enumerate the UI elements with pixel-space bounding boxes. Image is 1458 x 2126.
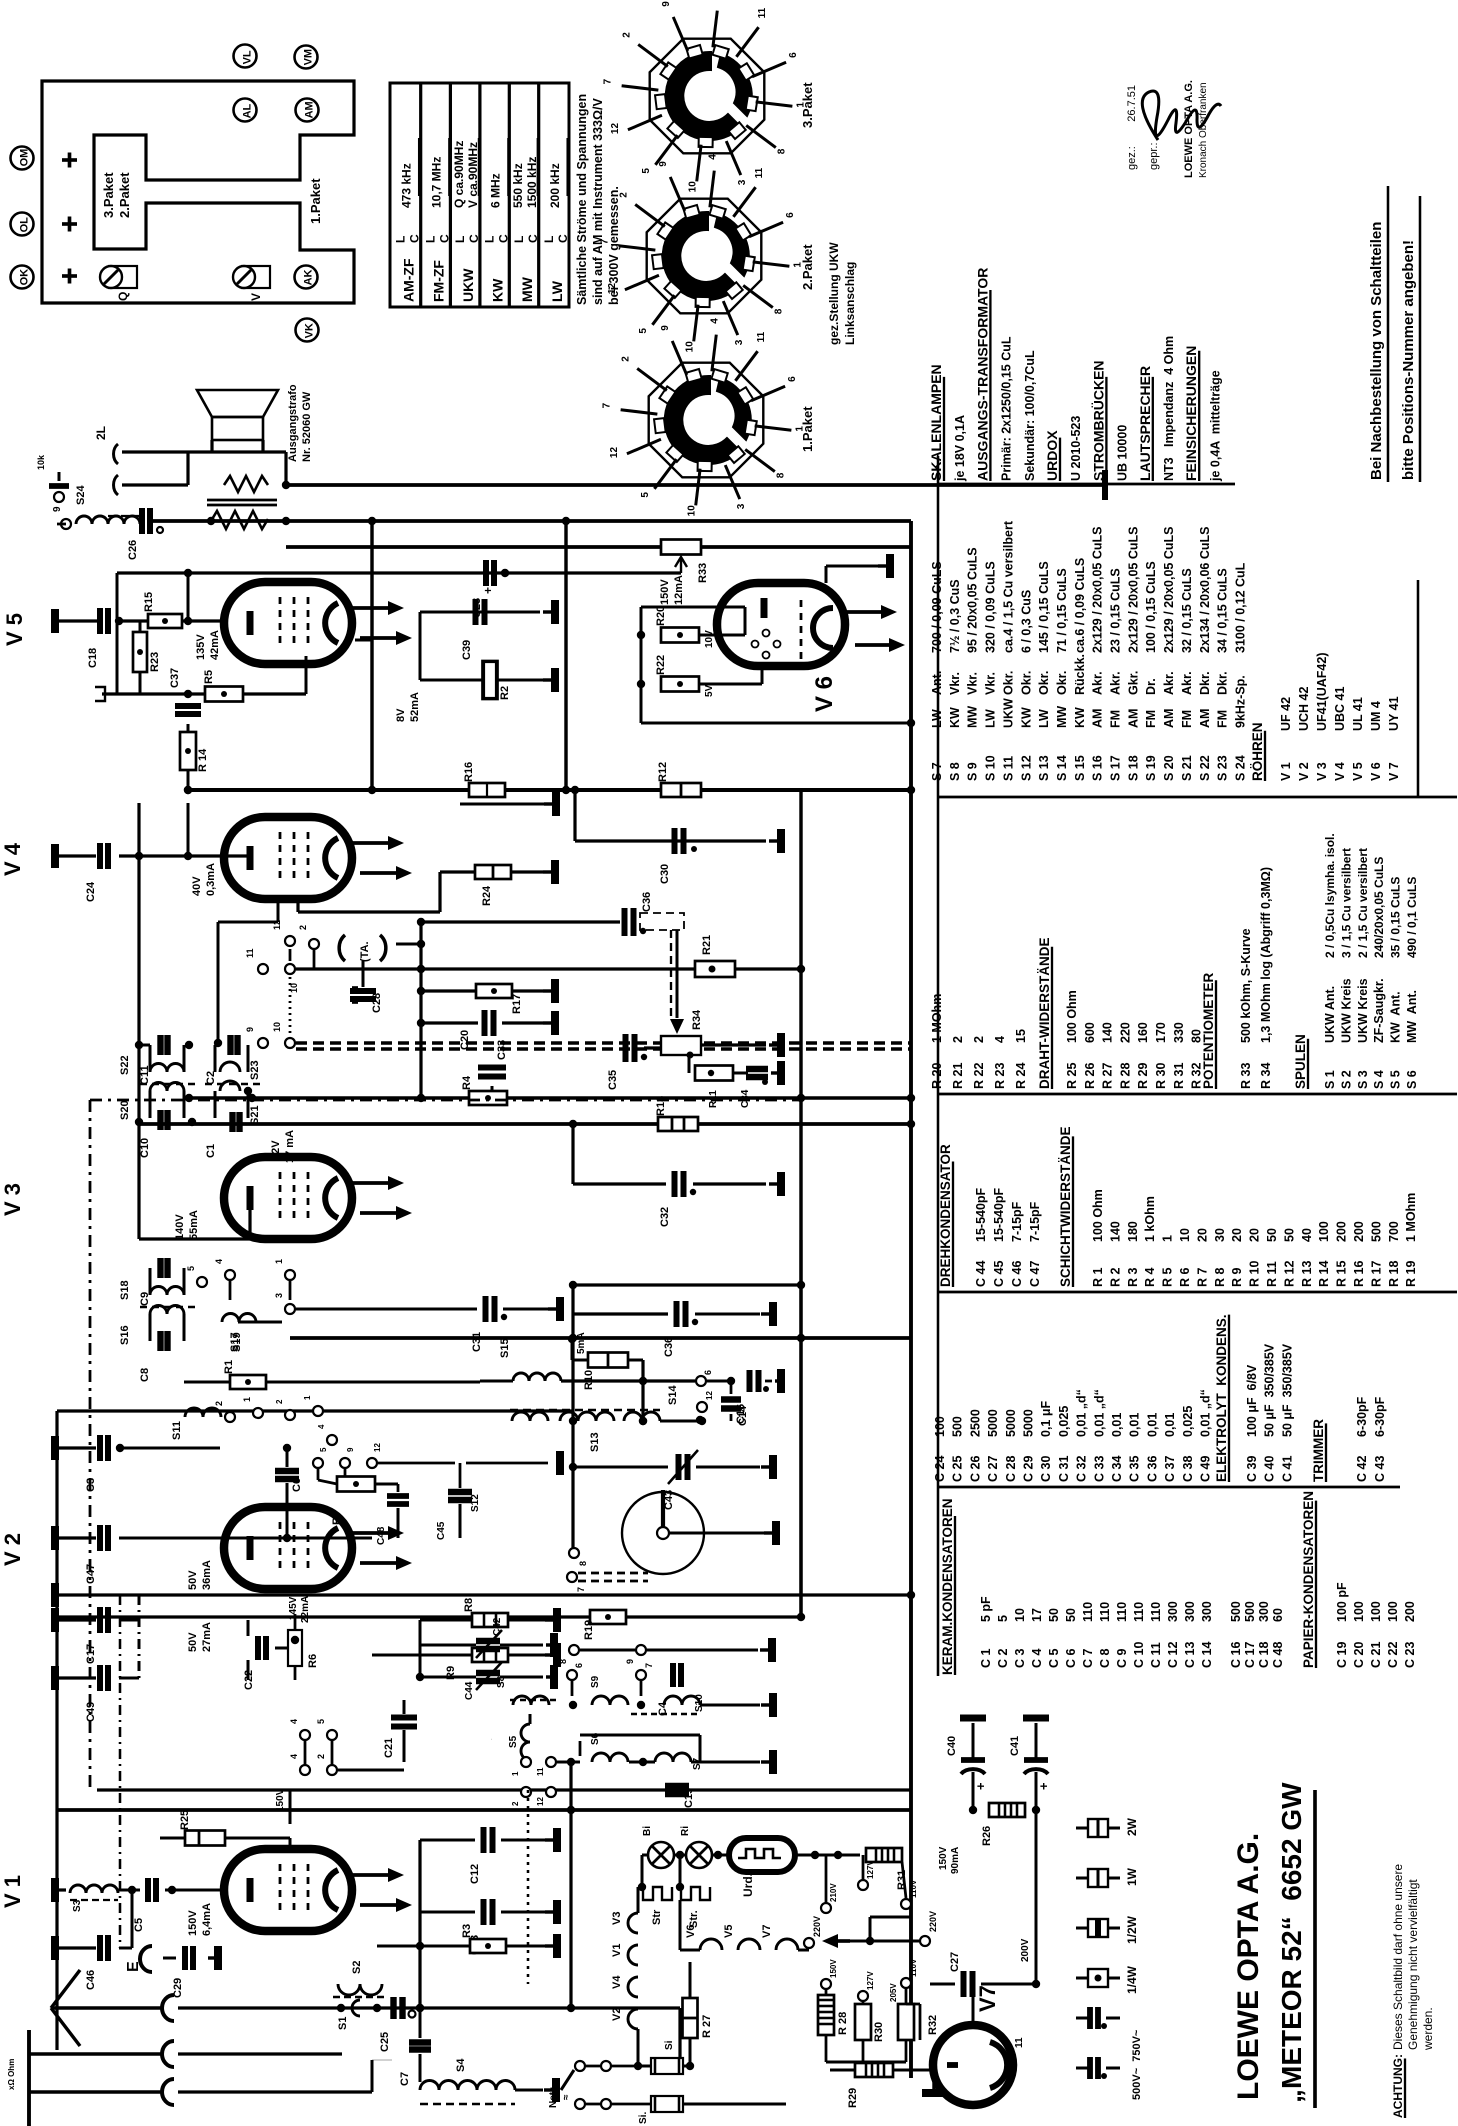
svg-text:C 20: C 20 <box>1352 1642 1366 1668</box>
svg-text:FM-ZF: FM-ZF <box>431 260 447 302</box>
svg-text:9: 9 <box>658 161 669 167</box>
svg-text:90mA: 90mA <box>950 1847 961 1874</box>
svg-text:50: 50 <box>1282 1228 1296 1242</box>
svg-text:R 16: R 16 <box>1352 1261 1366 1287</box>
svg-text:S15: S15 <box>499 1338 511 1358</box>
svg-text:7: 7 <box>644 1663 654 1668</box>
svg-text:0,01: 0,01 <box>1145 1413 1159 1437</box>
svg-text:Str: Str <box>651 1909 663 1925</box>
svg-text:6 MHz: 6 MHz <box>489 173 503 208</box>
svg-text:Akr.: Akr. <box>1180 671 1194 695</box>
svg-text:52mA: 52mA <box>409 692 421 722</box>
svg-text:C46: C46 <box>85 1970 97 1990</box>
svg-text:Nr. 52060 GW: Nr. 52060 GW <box>301 391 313 462</box>
svg-text:10: 10 <box>684 341 695 353</box>
svg-text:4: 4 <box>708 154 719 160</box>
svg-text:S 17: S 17 <box>1109 755 1123 781</box>
svg-text:C 27: C 27 <box>986 1456 1000 1482</box>
svg-text:SPULEN: SPULEN <box>1293 1034 1308 1089</box>
svg-text:500: 500 <box>1369 1221 1383 1242</box>
svg-text:NT3 Impendanz 4 Ohm: NT3 Impendanz 4 Ohm <box>1162 336 1176 481</box>
svg-text:20: 20 <box>1230 1228 1244 1242</box>
svg-text:0,01 „d“: 0,01 „d“ <box>1075 1389 1089 1437</box>
svg-text:500V~ 750V~: 500V~ 750V~ <box>1131 2029 1143 2100</box>
svg-text:L: L <box>393 236 407 243</box>
svg-text:R 28: R 28 <box>837 2012 849 2035</box>
svg-text:L: L <box>542 236 556 243</box>
svg-text:110: 110 <box>1081 1602 1095 1622</box>
svg-text:C: C <box>438 234 452 243</box>
svg-text:R 9: R 9 <box>1230 1268 1244 1288</box>
svg-text:C 8: C 8 <box>1098 1649 1112 1669</box>
svg-text:R 23: R 23 <box>993 1063 1007 1089</box>
svg-text:Q: Q <box>116 292 130 301</box>
svg-text:Si.: Si. <box>638 2112 649 2124</box>
svg-text:27mA: 27mA <box>201 1622 213 1652</box>
svg-text:S24: S24 <box>75 485 87 505</box>
svg-text:9kHz-Sp.: 9kHz-Sp. <box>1233 675 1247 728</box>
svg-text:S 21: S 21 <box>1180 755 1194 781</box>
svg-text:473 kHz: 473 kHz <box>399 163 413 208</box>
svg-text:V 4: V 4 <box>1333 762 1347 781</box>
svg-text:S20: S20 <box>119 1100 131 1120</box>
svg-text:LW: LW <box>984 709 998 728</box>
svg-text:50: 50 <box>1265 1228 1279 1242</box>
svg-text:sind auf AM mit Instrument 333: sind auf AM mit Instrument 333Ω/V <box>591 98 605 305</box>
svg-text:≈: ≈ <box>561 2094 572 2100</box>
svg-text:12mA: 12mA <box>673 575 685 605</box>
svg-text:110: 110 <box>1149 1602 1163 1622</box>
svg-text:34 / 0,15 CuLS: 34 / 0,15 CuLS <box>1216 568 1230 653</box>
svg-text:Okr.: Okr. <box>1055 671 1069 695</box>
svg-text:6: 6 <box>785 212 796 218</box>
svg-text:C28: C28 <box>371 993 383 1013</box>
svg-text:R16: R16 <box>463 762 475 782</box>
svg-text:V7: V7 <box>761 1925 773 1938</box>
svg-text:MW: MW <box>519 276 535 302</box>
svg-text:V 7: V 7 <box>1387 762 1401 781</box>
svg-text:700: 700 <box>1387 1221 1401 1242</box>
svg-text:R 29: R 29 <box>1136 1063 1150 1089</box>
svg-text:0,025: 0,025 <box>1181 1406 1195 1437</box>
svg-text:R4: R4 <box>461 1075 473 1090</box>
svg-text:110V: 110V <box>909 1879 918 1898</box>
svg-text:2x129 / 20x0,05 CuLS: 2x129 / 20x0,05 CuLS <box>1162 527 1176 653</box>
svg-text:R 19: R 19 <box>1404 1261 1418 1287</box>
svg-text:C35: C35 <box>607 1070 619 1090</box>
svg-text:R 14: R 14 <box>1317 1261 1331 1287</box>
svg-text:2500: 2500 <box>968 1409 982 1437</box>
svg-text:S 9: S 9 <box>966 762 980 781</box>
svg-text:3: 3 <box>737 179 748 185</box>
svg-text:R 17: R 17 <box>1369 1261 1383 1287</box>
svg-text:R 27: R 27 <box>701 2015 713 2038</box>
svg-text:200: 200 <box>1403 1601 1417 1622</box>
svg-text:AM: AM <box>1162 709 1176 728</box>
svg-text:Sämtliche Ströme und Spannunge: Sämtliche Ströme und Spannungen <box>575 94 589 305</box>
svg-text:9: 9 <box>346 1447 355 1452</box>
svg-text:C: C <box>467 234 481 243</box>
svg-text:FM: FM <box>1144 710 1158 728</box>
svg-text:100: 100 <box>1386 1601 1400 1622</box>
svg-text:15-540pF: 15-540pF <box>992 1187 1006 1242</box>
svg-text:FM: FM <box>1216 710 1230 728</box>
svg-text:7-15pF: 7-15pF <box>1010 1201 1024 1242</box>
svg-text:S5: S5 <box>508 1735 519 1748</box>
svg-text:VM: VM <box>303 49 315 66</box>
svg-text:R 12: R 12 <box>1282 1261 1296 1287</box>
svg-text:5: 5 <box>638 328 649 334</box>
svg-text:180: 180 <box>1126 1221 1140 1242</box>
svg-text:300: 300 <box>1257 1601 1271 1622</box>
svg-text:S 12: S 12 <box>1019 755 1033 781</box>
svg-text:0,01: 0,01 <box>1128 1413 1142 1437</box>
svg-text:C1: C1 <box>205 1144 217 1158</box>
svg-text:7-15pF: 7-15pF <box>1028 1201 1042 1242</box>
svg-text:C 11: C 11 <box>1149 1642 1163 1668</box>
svg-text:gepr.:: gepr.: <box>1148 142 1160 170</box>
svg-text:Dkr.: Dkr. <box>1198 671 1212 695</box>
svg-text:100 Ohm: 100 Ohm <box>1091 1189 1105 1242</box>
svg-text:4: 4 <box>993 1036 1007 1043</box>
svg-text:15: 15 <box>1014 1029 1028 1043</box>
svg-text:werden.: werden. <box>1421 2007 1435 2051</box>
svg-text:2.Paket: 2.Paket <box>800 244 815 290</box>
svg-text:1: 1 <box>511 1771 520 1776</box>
svg-text:V4: V4 <box>611 1975 623 1989</box>
svg-text:C31: C31 <box>471 1332 483 1352</box>
svg-text:9: 9 <box>245 1027 255 1032</box>
svg-text:R 15: R 15 <box>1335 1261 1349 1287</box>
svg-text:5 pF: 5 pF <box>979 1596 993 1622</box>
svg-text:ZF-Saugkr.: ZF-Saugkr. <box>1372 978 1386 1043</box>
svg-text:L: L <box>453 236 467 243</box>
svg-text:C 44: C 44 <box>974 1261 988 1287</box>
svg-text:Urd.: Urd. <box>741 1873 755 1897</box>
svg-text:C 46: C 46 <box>1010 1261 1024 1287</box>
svg-text:UF41(UAF42): UF41(UAF42) <box>1315 653 1329 732</box>
svg-text:C 30: C 30 <box>1039 1456 1053 1482</box>
svg-text:V: V <box>249 293 263 301</box>
svg-text:10: 10 <box>687 181 698 193</box>
svg-text:5mA: 5mA <box>576 1332 587 1354</box>
svg-text:V 3: V 3 <box>0 1183 25 1216</box>
svg-text:150V: 150V <box>275 1788 286 1812</box>
svg-text:22mA: 22mA <box>300 1596 311 1623</box>
svg-text:R34: R34 <box>691 1009 703 1030</box>
svg-text:S22: S22 <box>119 1055 131 1075</box>
svg-text:Primär: 2x1250/0,15 CuL: Primär: 2x1250/0,15 CuL <box>1000 336 1014 481</box>
svg-text:210V: 210V <box>829 1883 838 1902</box>
svg-text:0,025: 0,025 <box>1057 1406 1071 1437</box>
svg-text:C 1: C 1 <box>979 1649 993 1669</box>
svg-text:60: 60 <box>1271 1608 1285 1622</box>
svg-text:C23: C23 <box>471 598 483 618</box>
svg-text:AM: AM <box>1091 709 1105 728</box>
svg-text:C 22: C 22 <box>1386 1642 1400 1668</box>
svg-text:AM: AM <box>1198 709 1212 728</box>
svg-text:Ausgangstrafo: Ausgangstrafo <box>287 384 299 462</box>
svg-text:3: 3 <box>736 503 747 509</box>
svg-text:C 3: C 3 <box>1013 1649 1027 1669</box>
svg-text:Bei Nachbestellung von Schaltt: Bei Nachbestellung von Schaltteilen <box>1368 222 1385 480</box>
svg-text:C 6: C 6 <box>1064 1649 1078 1669</box>
svg-text:11: 11 <box>1014 2037 1025 2048</box>
svg-text:V 5: V 5 <box>2 613 27 646</box>
svg-text:KW: KW <box>490 278 506 302</box>
svg-text:V3: V3 <box>611 1912 623 1925</box>
svg-text:12: 12 <box>536 1797 545 1806</box>
svg-text:8: 8 <box>777 148 788 154</box>
svg-text:145V: 145V <box>288 1596 299 1620</box>
svg-text:7: 7 <box>600 238 611 244</box>
svg-text:4: 4 <box>710 318 721 324</box>
svg-text:150V: 150V <box>659 579 671 605</box>
svg-text:KERAM.KONDENSATOREN: KERAM.KONDENSATOREN <box>940 1498 955 1675</box>
svg-text:S 14: S 14 <box>1055 755 1069 781</box>
svg-text:R26: R26 <box>981 1826 993 1846</box>
svg-text:C 17: C 17 <box>1243 1642 1257 1668</box>
svg-text:0,01: 0,01 <box>1110 1413 1124 1437</box>
svg-text:„METEOR 52“ 6652 GW: „METEOR 52“ 6652 GW <box>1276 1782 1307 2103</box>
svg-text:1: 1 <box>1161 1235 1175 1242</box>
svg-text:DRAHT-WIDERSTÄNDE: DRAHT-WIDERSTÄNDE <box>1037 938 1052 1090</box>
svg-text:6: 6 <box>574 1663 584 1668</box>
svg-text:R 28: R 28 <box>1118 1063 1132 1089</box>
svg-text:R 18: R 18 <box>1387 1261 1401 1287</box>
svg-text:R 31: R 31 <box>1172 1063 1186 1089</box>
svg-text:40V: 40V <box>191 876 203 896</box>
svg-text:C 13: C 13 <box>1183 1642 1197 1668</box>
svg-text:Akr.: Akr. <box>1162 671 1176 695</box>
svg-text:Vkr.: Vkr. <box>966 672 980 695</box>
svg-text:S 10: S 10 <box>984 755 998 781</box>
svg-text:C48: C48 <box>376 1526 387 1545</box>
svg-text:1.Paket: 1.Paket <box>800 406 815 452</box>
svg-text:9: 9 <box>625 1659 635 1664</box>
svg-text:11: 11 <box>536 1767 545 1776</box>
svg-text:V 2: V 2 <box>0 1533 25 1566</box>
svg-text:C21: C21 <box>383 1738 395 1758</box>
svg-text:S23: S23 <box>249 1060 261 1080</box>
svg-text:C40: C40 <box>946 1736 958 1756</box>
svg-text:3.Paket: 3.Paket <box>101 172 116 218</box>
svg-text:AM: AM <box>1126 709 1140 728</box>
svg-text:71 / 0,15 CuLS: 71 / 0,15 CuLS <box>1055 568 1069 653</box>
svg-text:gez.Stellung UKW: gez.Stellung UKW <box>827 242 841 345</box>
svg-text:2: 2 <box>316 1754 326 1759</box>
svg-text:220V: 220V <box>928 1911 938 1932</box>
svg-text:5: 5 <box>316 1719 326 1724</box>
svg-text:0,01 „d“: 0,01 „d“ <box>1092 1389 1106 1437</box>
svg-text:5000: 5000 <box>1004 1409 1018 1437</box>
svg-text:500: 500 <box>1243 1601 1257 1622</box>
svg-text:OK: OK <box>19 269 31 286</box>
svg-text:1 kOhm: 1 kOhm <box>1143 1196 1157 1242</box>
svg-text:V 4: V 4 <box>0 842 25 876</box>
svg-text:1: 1 <box>303 1395 312 1400</box>
svg-text:C 5: C 5 <box>1047 1649 1061 1669</box>
svg-text:300: 300 <box>1183 1601 1197 1622</box>
svg-text:2W: 2W <box>1125 1817 1139 1836</box>
svg-text:C 47: C 47 <box>1028 1261 1042 1287</box>
svg-text:S 7: S 7 <box>930 762 944 781</box>
svg-text:205V: 205V <box>889 1983 898 2002</box>
svg-text:R20: R20 <box>655 606 667 626</box>
svg-text:R29: R29 <box>847 2088 859 2108</box>
svg-text:140: 140 <box>1101 1022 1115 1043</box>
svg-text:127V: 127V <box>866 1971 875 1990</box>
svg-text:+: + <box>481 587 495 594</box>
svg-text:UKW Kreis: UKW Kreis <box>1356 978 1370 1043</box>
svg-text:1,3 MOhm log (Abgriff 0,3MΩ): 1,3 MOhm log (Abgriff 0,3MΩ) <box>1259 867 1273 1043</box>
svg-text:100: 100 <box>1352 1601 1366 1622</box>
svg-text:L: L <box>424 236 438 243</box>
svg-text:C37: C37 <box>169 668 181 688</box>
svg-text:R33: R33 <box>697 563 709 583</box>
svg-text:8: 8 <box>774 308 785 314</box>
svg-text:R 25: R 25 <box>1065 1063 1079 1089</box>
svg-text:5: 5 <box>186 1266 196 1271</box>
svg-text:5: 5 <box>641 168 652 174</box>
svg-text:9: 9 <box>661 1 672 7</box>
svg-text:R15: R15 <box>143 592 155 612</box>
svg-text:Vkr.: Vkr. <box>948 672 962 695</box>
svg-text:C 24: C 24 <box>933 1456 947 1482</box>
svg-text:50: 50 <box>1064 1608 1078 1622</box>
svg-text:C27: C27 <box>949 1952 961 1972</box>
svg-text:R 4: R 4 <box>1143 1268 1157 1288</box>
svg-text:R30: R30 <box>873 2022 885 2042</box>
svg-text:S16: S16 <box>119 1325 131 1345</box>
svg-text:11: 11 <box>245 948 255 958</box>
svg-text:R 14: R 14 <box>197 748 209 772</box>
svg-text:LOEWE OPTA A.G.: LOEWE OPTA A.G. <box>1232 1833 1265 2100</box>
svg-text:2x129 / 20x0,05 CuLS: 2x129 / 20x0,05 CuLS <box>1091 527 1105 653</box>
svg-text:OL: OL <box>19 217 31 233</box>
svg-text:S9: S9 <box>590 1675 601 1688</box>
svg-text:12: 12 <box>272 920 282 930</box>
svg-text:10: 10 <box>1013 1608 1027 1622</box>
svg-text:Vkr.: Vkr. <box>984 672 998 695</box>
svg-text:UB 10000: UB 10000 <box>1116 425 1130 481</box>
svg-text:R 33: R 33 <box>1239 1063 1253 1089</box>
svg-text:gez.: 26.7.51: gez.: 26.7.51 <box>1126 85 1138 170</box>
svg-text:300: 300 <box>1166 1601 1180 1622</box>
svg-text:UM 4: UM 4 <box>1369 701 1383 731</box>
svg-text:C 33: C 33 <box>1092 1456 1106 1482</box>
svg-text:50V: 50V <box>187 1632 199 1652</box>
svg-text:Genehmigung nicht vervielfälti: Genehmigung nicht vervielfältigt <box>1406 1879 1420 2050</box>
svg-text:600: 600 <box>1083 1022 1097 1043</box>
svg-text:C: C <box>526 234 540 243</box>
svg-text:C26: C26 <box>127 540 139 560</box>
svg-text:S4: S4 <box>455 2058 467 2072</box>
svg-text:S 24: S 24 <box>1233 755 1247 781</box>
svg-text:Akr.: Akr. <box>1109 671 1123 695</box>
svg-text:V 1: V 1 <box>0 1875 25 1908</box>
svg-text:je 18V 0,1A: je 18V 0,1A <box>953 415 967 482</box>
svg-text:C: C <box>556 234 570 243</box>
svg-text:Dkr.: Dkr. <box>1216 671 1230 695</box>
svg-text:Okr.: Okr. <box>1001 671 1015 695</box>
svg-text:12: 12 <box>373 1443 382 1452</box>
svg-text:2: 2 <box>621 32 632 38</box>
svg-text:S 16: S 16 <box>1091 755 1105 781</box>
svg-text:150V: 150V <box>829 1959 838 1978</box>
svg-text:R7: R7 <box>331 1511 343 1525</box>
svg-text:KW Ant.: KW Ant. <box>1389 991 1403 1043</box>
svg-text:Dr.: Dr. <box>1144 678 1158 695</box>
svg-text:145 / 0,15 CuLS: 145 / 0,15 CuLS <box>1037 561 1051 653</box>
svg-text:V 6: V 6 <box>1369 762 1383 781</box>
svg-text:8: 8 <box>578 1561 588 1566</box>
svg-text:9: 9 <box>660 325 671 331</box>
svg-text:50V: 50V <box>187 1570 199 1590</box>
svg-text:S13: S13 <box>589 1432 601 1452</box>
svg-text:R19: R19 <box>583 1620 595 1640</box>
svg-text:C6: C6 <box>291 1478 303 1492</box>
svg-text:1 MOhm: 1 MOhm <box>1404 1193 1418 1242</box>
svg-text:12: 12 <box>607 283 618 295</box>
svg-text:R 34: R 34 <box>1259 1063 1273 1089</box>
svg-text:Q ca.90MHz: Q ca.90MHz <box>452 141 466 208</box>
svg-text:R 13: R 13 <box>1300 1261 1314 1287</box>
svg-text:Bi: Bi <box>642 1826 653 1836</box>
svg-text:AK: AK <box>303 269 315 285</box>
svg-text:170: 170 <box>1154 1022 1168 1043</box>
svg-text:C 25: C 25 <box>951 1456 965 1482</box>
svg-text:500: 500 <box>1229 1601 1243 1622</box>
svg-text:URDOX: URDOX <box>1044 430 1060 481</box>
svg-text:3.Paket: 3.Paket <box>800 82 815 128</box>
svg-text:xΩ Ohm: xΩ Ohm <box>7 2059 16 2090</box>
svg-text:1/2W: 1/2W <box>1125 1915 1139 1944</box>
svg-text:bitte Positions-Nummer angeben: bitte Positions-Nummer angeben! <box>1400 240 1417 480</box>
svg-text:2: 2 <box>275 1399 284 1404</box>
svg-text:SCHICHTWIDERSTÄNDE: SCHICHTWIDERSTÄNDE <box>1058 1127 1073 1288</box>
svg-text:6 / 0,3 CuS: 6 / 0,3 CuS <box>1019 590 1033 653</box>
svg-text:LW: LW <box>549 280 565 302</box>
svg-text:2: 2 <box>511 1801 520 1806</box>
svg-text:MW: MW <box>966 706 980 728</box>
svg-text:C 16: C 16 <box>1229 1642 1243 1668</box>
svg-text:C 9: C 9 <box>1115 1649 1129 1669</box>
svg-text:S 23: S 23 <box>1216 755 1230 781</box>
svg-text:6,4mA: 6,4mA <box>201 1903 213 1936</box>
svg-text:110: 110 <box>1115 1602 1129 1622</box>
svg-text:3 / 1,5 Cu versilbert: 3 / 1,5 Cu versilbert <box>1339 848 1353 958</box>
svg-text:42mA: 42mA <box>209 630 221 660</box>
svg-text:110: 110 <box>1132 1602 1146 1622</box>
svg-text:4: 4 <box>289 1754 299 1759</box>
svg-text:R2: R2 <box>499 686 511 700</box>
svg-text:6: 6 <box>787 376 798 382</box>
svg-text:UKW Ant.: UKW Ant. <box>1323 986 1337 1043</box>
svg-text:V 3: V 3 <box>1315 762 1329 781</box>
svg-text:S11: S11 <box>171 1421 183 1440</box>
svg-text:C33: C33 <box>496 1040 508 1060</box>
svg-text:S 1: S 1 <box>1323 1070 1337 1089</box>
svg-text:S2: S2 <box>351 1961 363 1974</box>
svg-text:0,01: 0,01 <box>1163 1413 1177 1437</box>
svg-text:C8: C8 <box>139 1368 151 1382</box>
svg-text:2: 2 <box>214 1401 224 1406</box>
svg-text:L: L <box>512 236 526 243</box>
svg-text:100: 100 <box>1317 1221 1331 1242</box>
svg-text:R 20: R 20 <box>930 1063 944 1089</box>
svg-text:C5: C5 <box>133 1918 145 1932</box>
